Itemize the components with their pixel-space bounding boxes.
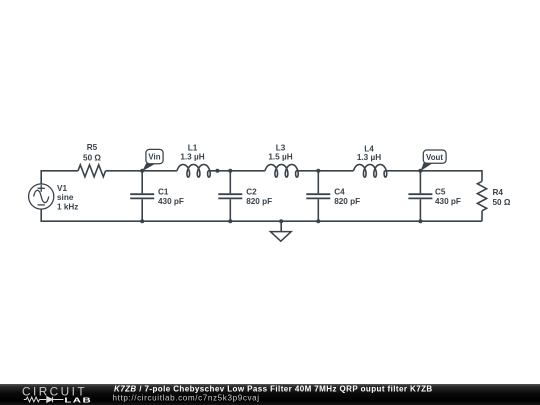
capacitor C1 top plate — [130, 193, 154, 195]
capacitor C5 wire bottom — [419, 199, 421, 221]
capacitor C2 top plate — [218, 193, 242, 195]
svg-text:L1: L1 — [188, 143, 198, 152]
svg-text:L4: L4 — [364, 144, 374, 153]
svg-text:1.3 µH: 1.3 µH — [357, 153, 381, 162]
svg-text:K7ZB / 7-pole Chebyschev Low P: K7ZB / 7-pole Chebyschev Low Pass Filter… — [114, 384, 433, 393]
wire L1 to L3 — [208, 170, 265, 172]
svg-text:430 pF: 430 pF — [158, 197, 184, 206]
svg-text:430 pF: 430 pF — [435, 197, 461, 206]
capacitor C1 wire top — [141, 171, 143, 194]
svg-text:LAB: LAB — [64, 396, 92, 405]
flag Vin pointer — [142, 163, 155, 171]
svg-text:50 Ω: 50 Ω — [493, 198, 511, 207]
node dot C2 bottom — [228, 219, 232, 223]
resistor R4 — [477, 181, 486, 211]
wire top rail segment V1 to R5 — [41, 171, 78, 184]
svg-text:C2: C2 — [246, 187, 257, 196]
capacitor C4 wire bottom — [317, 199, 319, 221]
node dot Vout — [418, 169, 422, 173]
wire R5 to L1 — [106, 170, 177, 172]
voltage source V1 sine wave — [34, 190, 49, 202]
capacitor C1 wire bottom — [141, 199, 143, 221]
capacitor C4 wire top — [317, 171, 319, 194]
node dot C1 bottom — [140, 219, 144, 223]
capacitor C5 wire top — [419, 171, 421, 194]
svg-text:820 pF: 820 pF — [334, 197, 360, 206]
capacitor C2 wire top — [229, 171, 231, 194]
svg-text:V1: V1 — [57, 184, 67, 193]
capacitor C4 bottom plate — [306, 197, 330, 199]
svg-text:L3: L3 — [276, 143, 286, 152]
node dot ground junction — [279, 219, 283, 223]
wire bottom rail — [41, 209, 482, 221]
svg-text:1.5 µH: 1.5 µH — [268, 153, 292, 162]
ground stem — [280, 221, 282, 231]
svg-text:1.3 µH: 1.3 µH — [180, 153, 204, 162]
ground triangle — [270, 232, 291, 242]
logo resistor squiggle — [24, 397, 47, 402]
capacitor C5 top plate — [408, 193, 432, 195]
capacitor C4 top plate — [306, 193, 330, 195]
node dot C5 bottom — [418, 219, 422, 223]
node dot C4 top — [316, 169, 320, 173]
inductor L4 — [354, 165, 387, 178]
capacitor C2 wire bottom — [229, 199, 231, 221]
node dot L1 output junction — [215, 169, 219, 173]
svg-text:http://circuitlab.com/c7nz5k3p: http://circuitlab.com/c7nz5k3p9cvaj — [113, 394, 260, 403]
node dot C4 bottom — [316, 219, 320, 223]
svg-text:R4: R4 — [493, 188, 504, 197]
svg-text:Vin: Vin — [148, 152, 160, 161]
capacitor C1 bottom plate — [130, 197, 154, 199]
capacitor C2 bottom plate — [218, 197, 242, 199]
svg-text:sine: sine — [57, 193, 74, 202]
svg-text:C5: C5 — [435, 187, 446, 196]
svg-text:1 kHz: 1 kHz — [57, 203, 78, 212]
svg-text:Vout: Vout — [426, 153, 443, 162]
voltage source V1 minus sign — [38, 204, 45, 206]
inductor L3 — [265, 165, 298, 178]
flag Vout pointer — [420, 163, 432, 171]
flag Vout box — [423, 150, 446, 163]
voltage source V1 circle — [29, 184, 54, 209]
wire L4 to top-right corner — [385, 171, 483, 182]
svg-text:C4: C4 — [334, 187, 345, 196]
logo diode symbol — [47, 397, 64, 403]
flag Vin box — [146, 149, 163, 163]
capacitor C5 bottom plate — [408, 197, 432, 199]
node dot Vin — [140, 169, 144, 173]
node dot C2 top — [228, 169, 232, 173]
wire R4 to bottom rail — [481, 211, 483, 221]
inductor L1 — [177, 165, 210, 178]
svg-text:50 Ω: 50 Ω — [83, 153, 101, 162]
footer bar — [0, 384, 540, 405]
svg-text:R5: R5 — [87, 143, 98, 152]
voltage source V1 plus sign — [38, 185, 45, 192]
wire L3 to L4 — [296, 170, 354, 172]
svg-text:820 pF: 820 pF — [246, 197, 272, 206]
svg-text:C1: C1 — [158, 187, 169, 196]
resistor R5 — [78, 165, 106, 177]
